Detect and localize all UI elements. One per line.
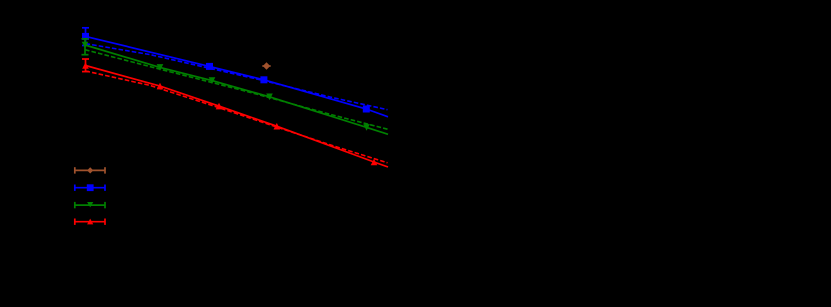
markers B squares <box>82 33 370 113</box>
markers R triangles-up <box>82 62 377 165</box>
series G solid data line <box>85 45 388 134</box>
series G (green) error bar at first point <box>82 39 89 55</box>
series B solid data line <box>86 36 389 116</box>
series B (blue) error bar at first point <box>82 28 89 46</box>
legend entry 2: blue square with horizontal error bar <box>75 185 105 191</box>
marker D1 diamond <box>263 62 270 70</box>
legend entry 3: green triangle-down with horizontal error bar <box>75 202 105 208</box>
series R dashed fit line <box>86 71 388 163</box>
legend entry 4: red triangle-up with horizontal error bar <box>75 219 105 225</box>
series R (red) error bar at first point <box>82 59 89 72</box>
series B dashed fit line <box>86 44 388 110</box>
series G dashed fit line <box>85 50 388 130</box>
series R solid data line <box>86 66 389 168</box>
series D (sienna) single data point with small x-error bar <box>262 65 270 67</box>
markers G triangles-down <box>82 42 370 131</box>
legend entry 1: sienna diamond with horizontal error bar <box>75 167 105 173</box>
